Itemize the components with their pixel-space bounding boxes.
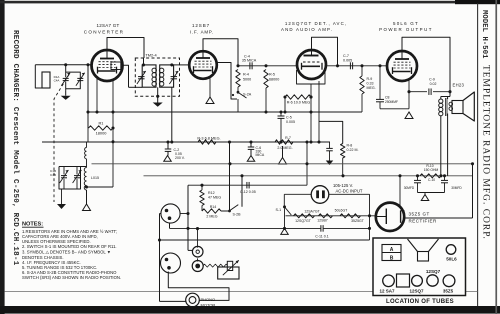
wire oscillator grid drop — [86, 65, 89, 128]
wire IFT left stub — [129, 86, 143, 88]
svg-text:50L6: 50L6 — [446, 256, 457, 261]
wire audio line — [326, 64, 387, 67]
svg-text:12 SA7: 12 SA7 — [379, 289, 395, 294]
transformer core — [446, 98, 447, 116]
chassis ground under trimmers — [61, 91, 71, 100]
wire det diode drop — [309, 84, 312, 144]
resistor R-5 68000 — [264, 70, 279, 114]
wire S-2B up — [241, 176, 243, 207]
capacitor C-10 30uf — [404, 174, 436, 192]
svg-text:2 MEG: 2 MEG — [206, 215, 217, 219]
wire R1 left lead — [87, 128, 89, 142]
IFT chassis ground — [153, 87, 163, 106]
IFT primary winding box — [142, 65, 156, 87]
svg-text:C-5: C-5 — [286, 116, 292, 120]
wire converter grid right — [122, 65, 129, 87]
switch S-2B — [221, 205, 241, 217]
socket 35Z5 — [443, 275, 455, 287]
svg-text:18000: 18000 — [96, 131, 108, 136]
heater resistor 2 — [319, 214, 333, 218]
svg-text:R-9: R-9 — [367, 77, 373, 81]
label 12SA7 GT CONVERTER — [84, 23, 124, 35]
socket 12SQ7 b — [426, 269, 441, 286]
resistor R-6 10 MEG — [283, 95, 312, 114]
svg-text:R-7: R-7 — [285, 136, 291, 140]
svg-text:C4A: C4A — [54, 79, 60, 83]
svg-text:R-8: R-8 — [347, 144, 353, 148]
svg-text:RECORD CHANGER: Crescent Model: RECORD CHANGER: Crescent Model C-250, RC… — [11, 30, 19, 266]
label EH23 — [453, 83, 465, 88]
svg-text:PHONO: PHONO — [201, 297, 216, 302]
phono motor — [186, 293, 200, 307]
svg-text:R-6 10.0 MEG.: R-6 10.0 MEG. — [287, 100, 312, 104]
trimmer capacitor C1A — [61, 65, 70, 91]
B- triangle under R-7 — [279, 146, 287, 164]
svg-text:S-1: S-1 — [275, 208, 281, 212]
svg-text:TM2-4: TM2-4 — [145, 53, 157, 58]
capacitor C-11 — [315, 225, 329, 238]
svg-text:0.005: 0.005 — [343, 59, 352, 63]
tube V2 12SB7 IF amp — [189, 51, 217, 79]
label 12SQ7GT DET AVC AND AUDIO AMP — [281, 21, 347, 32]
resistor R-10 150 OHM — [420, 164, 441, 178]
resistor R12 47 MEG — [200, 185, 222, 211]
B- triangle under output — [405, 112, 413, 119]
svg-text:35Z5GT: 35Z5GT — [351, 219, 365, 223]
svg-text:0.22 M.: 0.22 M. — [347, 148, 359, 152]
wire C8 bottom — [380, 108, 409, 110]
capacitor C-2 — [165, 142, 185, 160]
svg-text:35Z5: 35Z5 — [443, 289, 454, 294]
svg-text:AND AUDIO AMP.: AND AUDIO AMP. — [281, 27, 333, 32]
svg-text:68000: 68000 — [269, 78, 279, 82]
svg-text:50L6 GT: 50L6 GT — [393, 21, 419, 26]
svg-text:12SQ7: 12SQ7 — [426, 269, 441, 274]
label C1B — [50, 169, 56, 177]
svg-text:200 V.: 200 V. — [175, 156, 185, 160]
svg-text:A: A — [390, 247, 394, 253]
right margin rotated text TEMPLETONE RADIO MFG CORP — [481, 65, 491, 240]
wire J1 right — [180, 213, 188, 215]
svg-text:C4B: C4B — [50, 173, 56, 177]
svg-text:B: B — [390, 255, 394, 261]
location of tubes box — [373, 238, 466, 296]
svg-text:50L6GT: 50L6GT — [335, 209, 349, 213]
label C1A — [54, 75, 60, 83]
wire IFT secondary out — [174, 64, 190, 66]
wire tuning cap top — [59, 166, 87, 168]
AC plug — [311, 186, 329, 204]
bus wire B plus rail — [144, 174, 473, 177]
wire plug right drop — [329, 194, 371, 240]
resistor R-3 6.8 MEG — [197, 137, 220, 145]
wire rectifier output right — [404, 217, 472, 219]
wire switch box left — [186, 185, 192, 250]
label LOCATION OF TUBES — [386, 299, 454, 305]
svg-text:TEMPLETONE RADIO MFG. CORP.: TEMPLETONE RADIO MFG. CORP. — [481, 65, 491, 240]
svg-text:MICA: MICA — [256, 153, 265, 157]
svg-text:2. SWITCH S-1 IS MOUNTED ON RE: 2. SWITCH S-1 IS MOUNTED ON REAR OF R11. — [22, 244, 117, 249]
capacitor C-9b 30uf — [441, 174, 462, 192]
label L015 — [91, 176, 99, 180]
top border bar — [0, 0, 500, 4]
svg-text:12SB7: 12SB7 — [192, 23, 210, 28]
svg-text:12SQ7GT: 12SQ7GT — [295, 219, 312, 223]
battery block A B — [382, 245, 401, 262]
wire IFT secondary drop — [170, 87, 173, 143]
switch S-2A — [232, 87, 252, 112]
svg-text:RECTIFIER: RECTIFIER — [409, 218, 438, 223]
IFT secondary coil — [159, 68, 164, 86]
right margin separator rule — [477, 3, 479, 306]
heater string wire — [286, 215, 377, 217]
footer rule — [5, 291, 478, 293]
svg-text:0.02: 0.02 — [430, 82, 437, 86]
diode box under detector — [297, 70, 326, 84]
svg-text:R12: R12 — [208, 191, 215, 195]
resistor R-9 0.33 MEG — [360, 66, 376, 112]
svg-text:C-9: C-9 — [429, 77, 435, 81]
svg-text:L015: L015 — [91, 176, 99, 180]
output transformer secondary — [448, 97, 453, 176]
svg-text:POWER OUTPUT: POWER OUTPUT — [379, 27, 433, 32]
left margin rotated text RECORD CHANGER — [11, 30, 19, 266]
svg-text:12SA7GT: 12SA7GT — [304, 209, 320, 213]
svg-text:30MFD: 30MFD — [451, 186, 462, 190]
B- triangle under IF amp — [206, 78, 214, 104]
bus wire B minus rail — [92, 162, 475, 165]
label 35Z5 GT RECTIFIER — [409, 212, 438, 224]
svg-text:12SA7 GT: 12SA7 GT — [96, 23, 119, 28]
svg-text:105-125 V.: 105-125 V. — [333, 183, 353, 188]
svg-text:LOCATION OF TUBES: LOCATION OF TUBES — [386, 299, 454, 305]
capacitor C-9 0.02 — [409, 77, 452, 95]
wire vol tap — [306, 142, 308, 185]
wire IF plate loop — [203, 39, 238, 66]
IFT trimmer 1 — [137, 63, 146, 84]
IFT secondary winding box — [160, 65, 174, 87]
notes text block — [22, 221, 121, 279]
wire converter plate to IF transformer — [107, 38, 144, 59]
svg-text:0.33: 0.33 — [367, 82, 374, 86]
socket 12SQ7 a — [412, 275, 423, 286]
capacitor C-6 330 MICA — [248, 142, 265, 157]
svg-text:C-11 0.1: C-11 0.1 — [315, 234, 329, 238]
svg-text:SWITCH (SR3) AND SHOWN IN RADI: SWITCH (SR3) AND SHOWN IN RADIO POSITION… — [22, 275, 121, 280]
wire IF cathode right — [217, 63, 238, 100]
pickup jack small — [192, 246, 203, 257]
IFT primary coil — [152, 68, 157, 86]
heater labels top — [304, 209, 348, 214]
resistor R1 18000 — [89, 121, 114, 136]
capacitor C-7 0.005 — [343, 54, 353, 69]
wire speaker field right — [472, 164, 474, 218]
bus wire cathode line — [42, 140, 330, 143]
tube V4 50L6 output — [387, 51, 417, 81]
B- triangle under L015 — [83, 204, 91, 211]
wire grid line to converter — [35, 63, 91, 66]
output transformer primary — [439, 97, 450, 176]
resistor R-4 5000 — [236, 70, 251, 88]
trimmer loop frame — [66, 72, 81, 89]
gang dashed link — [54, 75, 69, 203]
speaker icon in box — [408, 239, 439, 261]
capacitor C-12 — [240, 182, 256, 194]
wire switch box top — [188, 184, 307, 187]
svg-text:5000: 5000 — [243, 78, 251, 82]
svg-text:C-7: C-7 — [343, 54, 349, 58]
chassis ground tuning — [57, 189, 66, 209]
wire motor link — [160, 272, 230, 302]
loop antenna L1 — [42, 72, 50, 88]
B- triangle under C-6 — [247, 156, 255, 162]
wire plug left to S-1 — [284, 194, 311, 205]
left border bar — [0, 0, 5, 314]
wire pickup drop — [196, 227, 199, 261]
right border line — [495, 0, 497, 314]
B- triangle under C-2 — [164, 156, 172, 162]
heater labels bottom — [295, 219, 365, 224]
phono jack J1 — [161, 204, 180, 223]
label 50L6 GT POWER OUTPUT — [379, 21, 433, 32]
svg-text:S-2B: S-2B — [233, 212, 242, 216]
bottom border bar — [0, 306, 500, 314]
tuning frame — [59, 167, 81, 190]
svg-text:S-2A: S-2A — [243, 93, 252, 97]
variable capacitor C4B — [73, 167, 82, 190]
phono jack J2 — [161, 253, 181, 273]
svg-text:R1: R1 — [99, 121, 104, 126]
resistor R14 2 MEG — [202, 205, 221, 219]
svg-text:2.0 MEG.: 2.0 MEG. — [277, 146, 292, 150]
bus wire phono ground — [160, 239, 370, 241]
svg-text:R14: R14 — [210, 205, 217, 209]
bus wire AVC line — [88, 110, 362, 113]
svg-text:150 OHM: 150 OHM — [424, 168, 439, 172]
B- triangle filter — [421, 193, 429, 201]
capacitor C8 250MMF — [376, 66, 398, 109]
wire det cathode — [318, 81, 320, 142]
svg-text:NOTES:: NOTES: — [22, 221, 43, 227]
socket 12SA7 — [383, 275, 395, 287]
IFT trimmer 2 — [169, 63, 178, 84]
label TM2-4 — [145, 53, 157, 58]
cartridge squiggle — [203, 264, 227, 267]
wire loc box link — [170, 223, 370, 229]
wire IFT feed — [143, 58, 145, 65]
wire vol to switch — [228, 140, 231, 211]
resistor R-8 0.22 MEG — [319, 121, 359, 175]
svg-text:47 MEG: 47 MEG — [208, 195, 221, 199]
wire rectifier cathode up — [399, 176, 401, 208]
capacitor C-4 35 MICA — [242, 55, 257, 70]
svg-text:AC-DC INPUT: AC-DC INPUT — [336, 188, 363, 193]
oscillator coil L015 — [84, 142, 88, 204]
capacitor C-5 — [278, 110, 296, 143]
svg-text:MEG.: MEG. — [367, 86, 376, 90]
svg-text:R-4: R-4 — [243, 73, 249, 77]
svg-text:12SQ7GT DET., AVC,: 12SQ7GT DET., AVC, — [285, 21, 347, 26]
label phono motor — [201, 297, 216, 307]
phono cartridge — [192, 261, 203, 272]
svg-text:250MMF: 250MMF — [385, 100, 398, 104]
svg-text:12SQ7: 12SQ7 — [409, 289, 424, 294]
right margin rotated text MODEL H-501 — [480, 10, 488, 59]
wire J1 left — [158, 214, 161, 302]
svg-text:EH23: EH23 — [453, 83, 465, 88]
wire antenna drop — [35, 65, 42, 88]
svg-text:C-10: C-10 — [428, 178, 435, 182]
svg-text:35Z5 GT: 35Z5 GT — [409, 212, 430, 217]
IF transformer TM2-4 box — [135, 58, 179, 96]
tube V5 35Z5 rectifier — [376, 203, 405, 231]
filter bottom wire — [418, 192, 445, 194]
svg-text:30MFD: 30MFD — [404, 186, 415, 190]
tube V3 12SQ7 det — [297, 50, 326, 79]
socket labels — [379, 289, 453, 294]
socket 50L6 — [446, 245, 457, 262]
svg-text:R-5: R-5 — [269, 73, 275, 77]
label 12SB7 I.F. AMP — [190, 23, 214, 35]
wire osc cathode drop — [88, 80, 115, 187]
svg-text:0.005: 0.005 — [286, 120, 295, 124]
heater resistor 3 — [340, 214, 361, 218]
socket square IF can — [397, 274, 410, 287]
svg-text:12SB7: 12SB7 — [317, 219, 328, 223]
wire det plate loop — [312, 37, 340, 67]
trimmer capacitor C4A — [76, 73, 85, 86]
wire converter cathode drops — [95, 78, 114, 114]
variable capacitor C1B — [60, 167, 69, 190]
svg-text:I.F. AMP.: I.F. AMP. — [190, 30, 214, 35]
svg-text:MOTOR: MOTOR — [201, 302, 216, 307]
capacitor cathode bypass — [326, 142, 334, 165]
svg-text:CONVERTER: CONVERTER — [84, 30, 124, 35]
volume control R-7 2 MEG — [275, 136, 293, 150]
svg-text:R-3 6.8 MEG.: R-3 6.8 MEG. — [197, 137, 220, 141]
B- triangle at S-1 — [281, 228, 289, 234]
label AC input — [333, 183, 363, 193]
wire output plate loop — [402, 37, 450, 96]
wire signal line C4 — [236, 64, 297, 67]
tube V1 12SA7 converter — [92, 50, 123, 81]
heater resistor 1 — [294, 214, 315, 218]
svg-text:MODEL H-501: MODEL H-501 — [480, 10, 488, 59]
switch S-1 — [275, 205, 291, 230]
wire output cathode — [407, 80, 410, 109]
speaker EH23 — [452, 92, 474, 121]
svg-text:35 MICA: 35 MICA — [242, 59, 257, 63]
needle box — [218, 260, 239, 279]
